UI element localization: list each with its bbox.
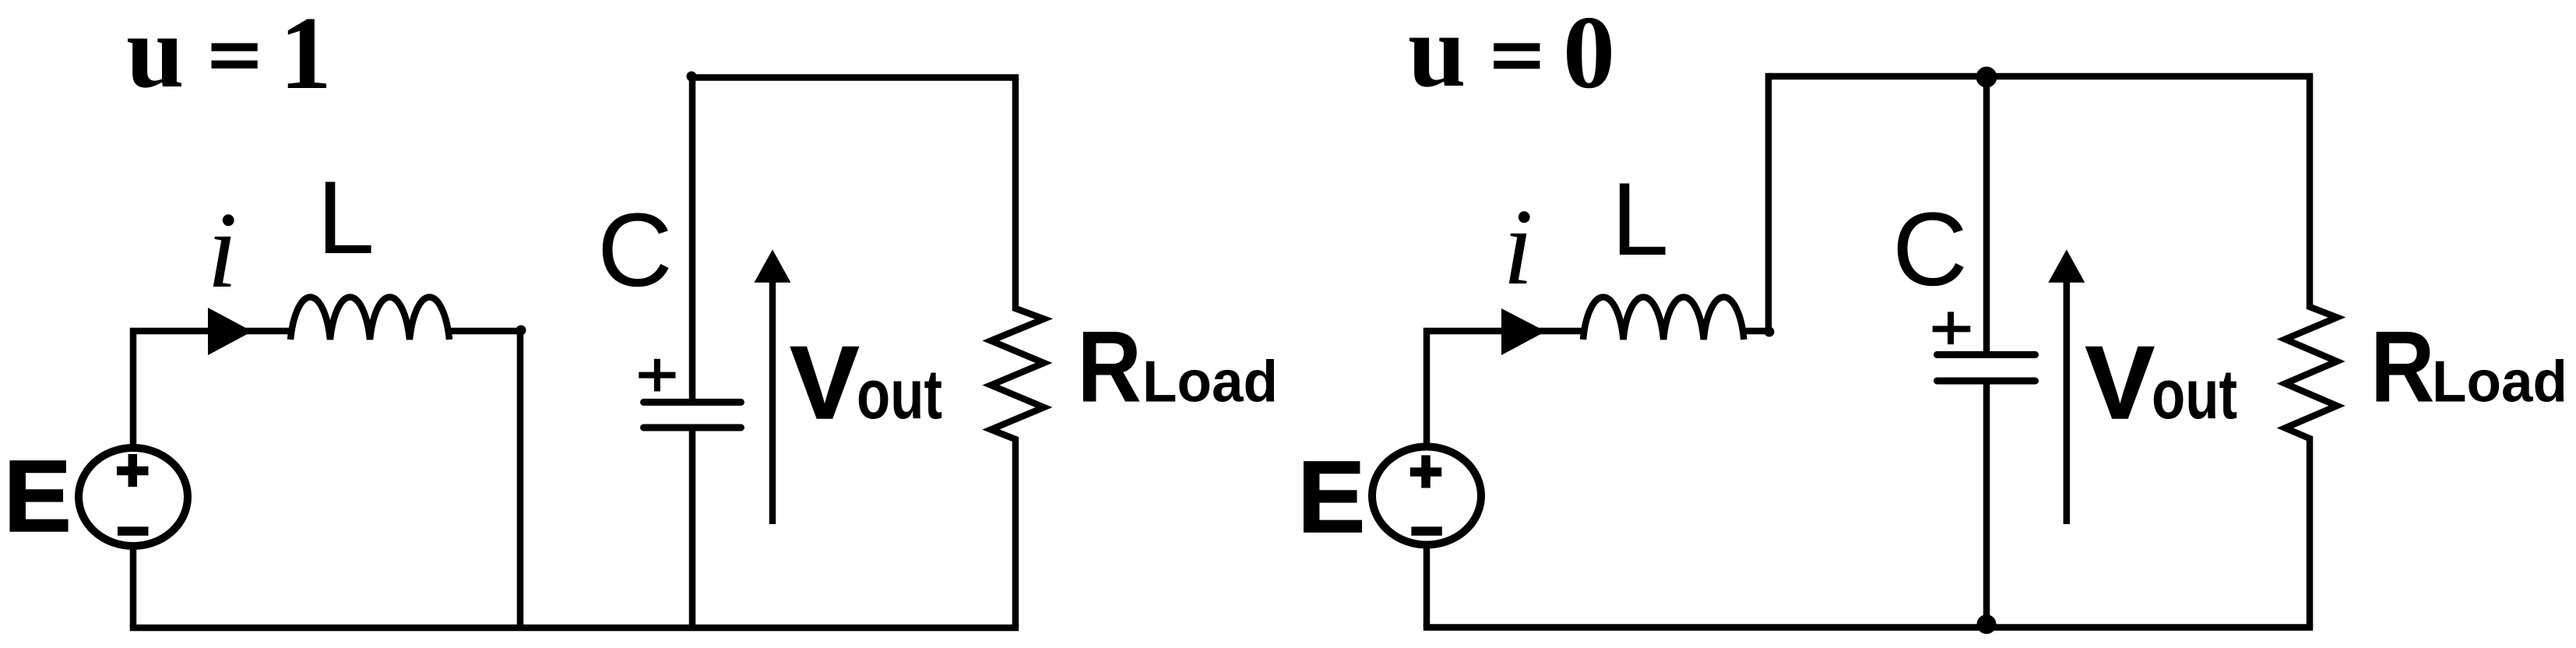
wire: capacitor C1 branch lower	[689, 428, 696, 628]
svg-text:L: L	[1611, 162, 1669, 277]
svg-text:Load: Load	[1142, 349, 1278, 414]
svg-text:out: out	[857, 356, 942, 434]
current arrow i (right)	[1501, 308, 1546, 355]
svg-text:L: L	[317, 160, 375, 276]
capacitor C1 plates	[644, 402, 741, 428]
voltage source E2 circle	[1372, 447, 1481, 545]
svg-text:C: C	[597, 192, 673, 308]
wire: capacitor C1 branch upper	[689, 74, 696, 402]
resistor RLoad2 with leads	[2286, 76, 2338, 628]
wire: inductor L2 to top rail riser	[1743, 73, 1768, 331]
wire: E1 bottom to bottom rail	[130, 546, 137, 628]
svg-text:out: out	[2152, 356, 2237, 434]
node dot top-left corner (left)	[687, 72, 697, 82]
wire: E2 bottom to bottom rail	[1423, 545, 1431, 628]
wire: E1 top to inductor L1 (left vertical + top horizontal)	[133, 331, 290, 448]
svg-text:E: E	[1297, 439, 1365, 554]
svg-text:1: 1	[280, 0, 332, 111]
wire: E2 top to inductor L2	[1427, 331, 1583, 446]
capacitor C2 polarity plus	[1933, 312, 1971, 344]
E2 minus sign	[1411, 526, 1441, 536]
svg-text:i: i	[1503, 187, 1533, 308]
E1 plus sign	[117, 454, 149, 487]
node dot at inductor corner (right)	[1765, 327, 1775, 337]
svg-text:u: u	[126, 0, 185, 109]
E1 minus sign	[118, 526, 149, 536]
svg-text:V: V	[790, 326, 860, 441]
wire: inductor L1 to switch-node, down to bottom rail	[448, 331, 520, 628]
svg-text:R: R	[2370, 310, 2435, 423]
svg-text:Load: Load	[2432, 349, 2567, 414]
bottom rail (right circuit)	[1423, 624, 2313, 631]
svg-text:C: C	[1892, 192, 1968, 308]
top rail (left circuit)	[692, 74, 1019, 81]
svg-text:u: u	[1408, 0, 1466, 108]
capacitor C1 polarity plus	[639, 359, 675, 392]
inductor L2	[1583, 298, 1744, 340]
Vout arrow (left)	[769, 279, 776, 524]
E2 plus sign	[1410, 456, 1442, 488]
node dot on bottom rail at C2	[1977, 615, 1997, 634]
wire: capacitor C2 branch upper	[1983, 76, 1990, 354]
wire: capacitor C2 branch lower	[1983, 381, 1990, 628]
svg-text:V: V	[2085, 326, 2155, 441]
inductor L1	[290, 297, 449, 340]
current arrow i (left)	[208, 308, 252, 355]
capacitor C2 plates	[1937, 354, 2036, 381]
svg-text:i: i	[207, 190, 238, 311]
svg-text:R: R	[1077, 310, 1142, 423]
resistor RLoad1 with leads	[991, 78, 1044, 629]
svg-text:0: 0	[1563, 0, 1615, 110]
voltage source E1 circle	[79, 448, 188, 546]
node dot on top rail at C2	[1976, 67, 1997, 88]
svg-text:E: E	[4, 438, 72, 553]
Vout arrow (right)	[2064, 279, 2071, 524]
bottom rail (left circuit)	[130, 625, 1019, 632]
node dot at switch corner (left)	[516, 326, 526, 336]
top rail (right circuit)	[1768, 73, 2313, 80]
